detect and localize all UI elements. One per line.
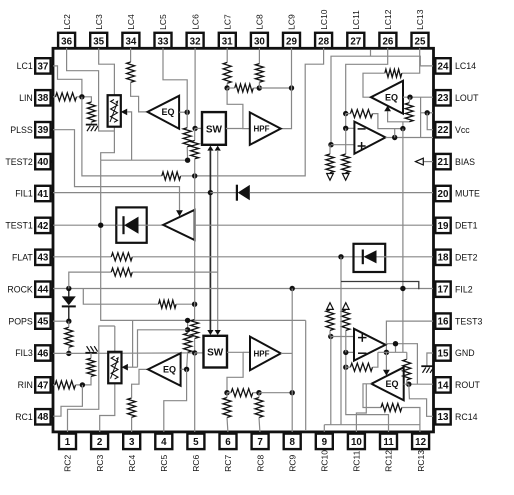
node n1 junction dot (79, 94, 84, 99)
node dotC (289, 85, 294, 90)
wire dot2 to SW1 (195, 127, 202, 129)
svg-text:RC3: RC3 (95, 455, 105, 472)
svg-text:5: 5 (193, 437, 199, 448)
SW control rail 1 (209, 150, 211, 331)
pin 9 RC10 (bottom) (316, 434, 333, 472)
wire RB to dotB (258, 82, 260, 88)
wire EQ3 out to dot (181, 368, 187, 370)
wire 402 rail upper stub (402, 122, 404, 129)
pin 45 POPS (left) (8, 313, 50, 328)
wire ROCK FIL2 row (53, 288, 433, 290)
BIAS arrow (416, 158, 434, 165)
pin stub left (51, 288, 54, 290)
resistor R-fb2 EQ2 feedback (385, 69, 402, 77)
wire pin25 LC13 lead (402, 48, 420, 73)
open arrow down R-dn1 (327, 173, 334, 181)
svg-text:HPF: HPF (254, 124, 270, 133)
long bias rail 402 (402, 129, 404, 353)
wire pin10 RC11 dogleg (356, 384, 366, 432)
resistor R-up1 (326, 310, 334, 331)
wire dot3b to R-up2 (345, 330, 347, 352)
svg-text:TEST2: TEST2 (5, 157, 32, 167)
pin 11 RC12 (bottom) (380, 434, 397, 472)
wire RA2 leads (226, 393, 229, 432)
svg-text:48: 48 (37, 412, 48, 423)
pin stub right (433, 65, 436, 67)
node ROCK dot (66, 286, 71, 291)
pin stub left (51, 192, 54, 194)
wire pin34 LC4 lead (130, 48, 132, 62)
VCA2 internal arrow (111, 357, 119, 379)
wire POPS row (53, 320, 69, 322)
pin 37 LC1 (left) (17, 58, 51, 73)
wire rail dot4 down to rock dot (194, 176, 196, 304)
pin stub right (433, 128, 436, 130)
svg-text:24: 24 (438, 61, 449, 72)
wire pin2 RC3 to VCA2 bottom (100, 383, 115, 432)
svg-text:LC8: LC8 (255, 14, 265, 30)
node op2 plus dot (328, 334, 333, 339)
svg-text:RC2: RC2 (63, 455, 73, 472)
svg-text:LC9: LC9 (287, 14, 297, 30)
pin stub right (433, 224, 436, 226)
wire HPF2 apex (281, 352, 292, 354)
VCA2 internal resistor (111, 356, 118, 379)
wire dot2op to plus input (331, 144, 354, 146)
wire R-g1 bottom (90, 122, 92, 125)
svg-text:29: 29 (286, 36, 297, 47)
node pin8 dot (290, 390, 295, 395)
node EQ4 out dot (406, 382, 411, 387)
svg-text:12: 12 (415, 437, 426, 448)
pin 33 LC5 (top) (155, 14, 172, 48)
EQ amp U7 (right channel output EQ) (371, 367, 403, 400)
VCA1 variable attenuator box (108, 95, 121, 127)
wire R-RIN to dot (76, 376, 92, 385)
pin stub right (433, 352, 436, 354)
pin 18 DET2 (right) (435, 250, 477, 265)
resistor R-POPS (65, 327, 73, 347)
wire R2m to FIL3 dot2 (194, 339, 196, 353)
VCA2 control arrowhead (122, 364, 128, 371)
svg-text:28: 28 (318, 36, 329, 47)
pin stub left (51, 160, 54, 162)
node dotfb1 (343, 111, 348, 116)
svg-text:LC2: LC2 (62, 14, 72, 30)
pin stub right (433, 416, 436, 418)
svg-text:32: 32 (190, 36, 201, 47)
pin 16 TEST3 (right) (435, 313, 482, 328)
pin 44 ROCK (left) (7, 282, 50, 297)
node dot1 (185, 110, 190, 115)
svg-text:LC12: LC12 (383, 9, 393, 30)
svg-text:DET2: DET2 (455, 253, 478, 263)
wire EQ4 apex line (363, 384, 381, 408)
wire Vcc node line (421, 112, 433, 114)
resistor R-LIN (56, 93, 77, 101)
wire R2 to dot4 (194, 159, 196, 176)
pin 12 RC13 (bottom) (412, 434, 429, 472)
svg-text:27: 27 (350, 36, 361, 47)
pin 34 LC4 (top) (122, 14, 139, 48)
pin stub left (51, 256, 54, 258)
svg-text:DET1: DET1 (455, 221, 478, 231)
pin 43 FLAT (left) (12, 250, 51, 265)
wire pin32 LC6 to dot2 (194, 48, 196, 128)
wire RA to dotA (226, 83, 228, 88)
pin stub right (433, 160, 436, 162)
wire box to buffer (147, 224, 164, 226)
node R1m top dot (185, 318, 190, 323)
wire R34 to EQ1 apex (131, 82, 148, 112)
wire LIN lead (53, 96, 56, 98)
wire R-n1 to dot4 (181, 175, 195, 177)
svg-text:LOUT: LOUT (455, 93, 479, 103)
wire op2 output (386, 344, 418, 385)
pin 20 MUTE (right) (435, 186, 480, 201)
svg-text:POPS: POPS (8, 316, 33, 326)
svg-text:RC5: RC5 (159, 455, 169, 472)
pin stub right (433, 192, 436, 194)
node rail-FIL2 junction dot (400, 286, 405, 291)
svg-text:31: 31 (222, 36, 233, 47)
open arrow up R-up2 (343, 303, 350, 310)
pin 27 LC11 (top) (347, 10, 364, 48)
svg-text:23: 23 (438, 93, 449, 104)
svg-text:BIAS: BIAS (455, 157, 475, 167)
svg-text:16: 16 (438, 317, 449, 328)
pin 14 ROUT (right) (435, 377, 480, 392)
pin stub left (51, 65, 54, 67)
svg-text:41: 41 (37, 189, 48, 200)
wire ROCK up branch (69, 272, 112, 288)
wire 352 line (378, 351, 407, 353)
svg-text:36: 36 (61, 36, 72, 47)
svg-text:35: 35 (93, 36, 104, 47)
diode D3 inside box (363, 250, 377, 265)
wire fbop2 leads (346, 352, 378, 367)
resistor RB2 (255, 398, 263, 418)
svg-text:LC10: LC10 (319, 9, 329, 30)
pin 35 LC3 (top) (90, 14, 107, 48)
svg-text:44: 44 (37, 285, 48, 296)
pin 32 LC6 (top) (187, 14, 204, 48)
pin 26 LC12 (top) (379, 9, 396, 48)
wire dot1b to minus (346, 352, 354, 367)
wire op2 apex stub (395, 344, 397, 353)
svg-text:1: 1 (65, 437, 71, 448)
svg-text:LC7: LC7 (222, 14, 232, 30)
wire EQ1 output to dot1 (179, 111, 187, 113)
svg-text:TEST1: TEST1 (5, 221, 32, 231)
resistor R2 (191, 141, 199, 159)
wire PLSS control (53, 130, 180, 211)
node dot2 (192, 126, 197, 131)
svg-text:6: 6 (225, 437, 231, 448)
pin stub left (51, 97, 54, 99)
pin 30 LC8 (top) (251, 14, 268, 48)
wire stub to bottom edge (305, 320, 307, 431)
svg-text:LC13: LC13 (415, 9, 425, 30)
ground G1 (86, 125, 98, 132)
wire op1 output (386, 97, 434, 137)
resistor RB (255, 64, 263, 83)
wire to pin13 RC14 (409, 384, 433, 416)
wire pin30 LC8 lead (258, 48, 260, 64)
wire fbop1 right to dotR (373, 114, 403, 129)
wire R1m column (187, 320, 188, 369)
svg-text:10: 10 (351, 437, 362, 448)
svg-text:14: 14 (438, 380, 449, 391)
pin 19 DET1 (right) (435, 218, 477, 233)
svg-text:RC4: RC4 (127, 455, 137, 472)
svg-text:MUTE: MUTE (455, 189, 480, 199)
buffer control arrowhead (176, 210, 183, 216)
svg-text:2: 2 (97, 437, 103, 448)
SW control rail 2 (217, 150, 219, 331)
node RIN dot (80, 382, 85, 387)
pin 3 RC4 (bottom) (123, 434, 140, 472)
node TEST3 dot (384, 350, 389, 355)
svg-text:LC4: LC4 (126, 14, 136, 30)
wire RC to dotA (227, 87, 235, 89)
resistor R-n1 (mute row) (162, 172, 181, 180)
wire DET2 dot rail down (340, 257, 342, 425)
svg-text:RC1: RC1 (15, 412, 33, 422)
wire VCA1 control from dot3 (127, 112, 131, 160)
node rail junction on TEST1 row (98, 223, 103, 228)
pin 8 RC9 (bottom) (284, 434, 301, 472)
svg-text:EQ: EQ (161, 107, 174, 117)
wire R-LIN to n1 and to ground resistor (77, 97, 92, 102)
wire dot4 to pin28 (195, 48, 324, 176)
svg-text:LC1: LC1 (17, 61, 33, 71)
wire FIL3 dot2 to pin5 (194, 353, 196, 432)
wire EQ4 out to ROUT (404, 383, 433, 385)
wire RIN lead (53, 384, 55, 386)
detector box D3 (354, 244, 386, 272)
pin 22 Vcc (right) (435, 122, 470, 137)
svg-text:TEST3: TEST3 (455, 316, 482, 326)
svg-text:11: 11 (383, 437, 394, 448)
wire dot1b to pin11 (346, 367, 389, 432)
wire SW2 out chain (227, 352, 243, 392)
pin 24 LC14 (right) (435, 58, 476, 73)
pin 42 TEST1 (left) (5, 218, 50, 233)
wire R-fb4 to pin12 (402, 408, 420, 433)
svg-text:SW: SW (207, 348, 224, 359)
resistor R-fbop1 (350, 110, 372, 118)
svg-text:33: 33 (158, 36, 169, 47)
wire plus dot to R-up1 (329, 330, 331, 336)
svg-text:9: 9 (322, 437, 328, 448)
svg-text:EQ: EQ (385, 379, 398, 389)
wire FIL3 dot2 to SW2 (195, 352, 204, 354)
wire dot4op stub (394, 129, 396, 138)
pin stub left (51, 352, 54, 354)
resistor R-dn1 (326, 154, 334, 173)
EQ2 control arrowhead (384, 106, 391, 112)
open arrow down R-dn2 (342, 173, 349, 181)
pin stub left (51, 128, 54, 130)
svg-text:34: 34 (125, 36, 136, 47)
op-amp U3 (354, 122, 385, 154)
resistor R-RIN (55, 381, 76, 389)
svg-text:LC14: LC14 (455, 61, 476, 71)
pin 46 FIL3 (left) (15, 345, 50, 360)
wire R-ROCK2 to dot (176, 303, 195, 305)
pin stub left (51, 384, 54, 386)
resistor R-FLAT (111, 253, 132, 261)
svg-text:LIN: LIN (19, 93, 33, 103)
pin 41 FIL1 (left) (15, 186, 50, 201)
pin stub right (433, 320, 436, 322)
pin 39 PLSS (left) (10, 122, 50, 137)
svg-text:3: 3 (129, 437, 135, 448)
resistor RC2m (231, 389, 253, 397)
HPF2 filter amp (250, 337, 281, 371)
SW1 control arrows (207, 146, 221, 151)
pin 47 RIN (left) (18, 377, 51, 392)
node dot4 junction (192, 173, 197, 178)
wire dot2 to R2 (194, 128, 196, 140)
svg-text:22: 22 (438, 125, 449, 136)
resistor R-out1 (405, 103, 413, 122)
node dotB (257, 85, 262, 90)
pin 36 LC2 (top) (58, 14, 75, 48)
node DET2 dot (338, 254, 343, 259)
svg-text:RC6: RC6 (191, 455, 201, 472)
svg-text:39: 39 (37, 125, 48, 136)
node dotR (400, 126, 405, 131)
node op2 out dot (393, 341, 398, 346)
wire dot2op to R-dn1 (329, 145, 331, 154)
wire R-POPS leads (68, 321, 70, 353)
node dot2op (328, 142, 333, 147)
wire R-out2 leads (407, 352, 409, 384)
ground G3 (421, 366, 433, 373)
wire dot1 to R1 (186, 112, 188, 128)
wire TEST3 row (386, 321, 433, 352)
pin stub right (433, 288, 436, 290)
wire ROCK 83 dogleg (83, 289, 158, 305)
pin stub left (51, 224, 54, 226)
resistor R2m (191, 320, 199, 339)
pin 48 RC1 (left) (15, 409, 50, 424)
svg-text:EQ: EQ (385, 92, 398, 102)
resistor RA2 (223, 398, 231, 418)
svg-text:SW: SW (206, 125, 223, 136)
svg-text:FLAT: FLAT (12, 253, 33, 263)
svg-text:RC8: RC8 (255, 455, 265, 472)
VCA2 variable attenuator box (108, 352, 121, 384)
pin 13 RC14 (right) (435, 409, 477, 424)
wire rock dot to R2m (194, 304, 196, 319)
svg-text:17: 17 (438, 285, 449, 296)
node dotB2 (256, 390, 261, 395)
op-amp U6 (354, 329, 386, 361)
wire pin9 stub (323, 425, 325, 432)
svg-text:RC7: RC7 (223, 455, 233, 472)
wire rail to VCA2 control (132, 320, 134, 367)
svg-text:13: 13 (438, 412, 449, 423)
node dotA2 (224, 390, 229, 395)
pin 17 FIL2 (right) (435, 282, 472, 297)
SW2 switch box (204, 336, 228, 368)
svg-text:RC14: RC14 (455, 412, 478, 422)
EQ amp U5 (right channel input EQ) (148, 353, 181, 386)
pin 25 LC13 (top) (412, 9, 429, 48)
wire dot3op to R-dn2 (345, 128, 347, 154)
svg-text:30: 30 (254, 36, 265, 47)
resistor RA (223, 62, 231, 83)
node FIL2 dot (290, 286, 295, 291)
pin 5 RC6 (bottom) (187, 434, 204, 472)
pin stub right (433, 384, 436, 386)
VCA1 internal resistor (111, 100, 118, 123)
svg-text:LC5: LC5 (158, 14, 168, 30)
wire pin4 RC5 dogleg (164, 369, 187, 432)
svg-text:FIL2: FIL2 (455, 284, 473, 294)
svg-text:FIL3: FIL3 (15, 348, 33, 358)
wire dotVcc to pin22 (427, 113, 433, 130)
node rock-rail dot (192, 302, 197, 307)
wire pin8 rail (291, 289, 293, 433)
svg-text:20: 20 (438, 189, 449, 200)
wire pin26 LC12 to feedback node (346, 48, 388, 114)
svg-text:26: 26 (382, 36, 393, 47)
wire R-ROCK-up to rail2 (132, 271, 217, 273)
pin 7 RC8 (bottom) (252, 434, 269, 472)
svg-text:RC10: RC10 (320, 450, 330, 472)
wire pin37 LC1 to node n1 (53, 66, 82, 97)
svg-text:19: 19 (438, 221, 449, 232)
resistor R-out2 (403, 359, 411, 380)
wire pin3 RC4 lead (131, 417, 133, 432)
node dot3b (343, 350, 348, 355)
svg-text:HPF: HPF (254, 349, 270, 358)
svg-text:4: 4 (161, 437, 167, 448)
node dot1b (343, 365, 348, 370)
svg-text:43: 43 (37, 253, 48, 264)
detector box D2 (116, 207, 146, 242)
pin 4 RC5 (bottom) (155, 434, 172, 472)
wire TEST1 row to box (53, 224, 116, 226)
pin 29 LC9 (top) (283, 14, 300, 48)
open arrow up R-up1 (327, 303, 334, 310)
wire RB2 leads (258, 393, 261, 432)
wire fbop1 left (346, 113, 351, 115)
diode D4 (rock) (62, 289, 76, 322)
IC body outline (53, 48, 434, 432)
resistor R-dn2 (342, 154, 350, 173)
pin stub right (433, 256, 436, 258)
svg-text:RC12: RC12 (384, 450, 394, 472)
svg-text:46: 46 (37, 348, 48, 359)
wire FIL3 row (53, 352, 195, 355)
node dotEQ2 (407, 95, 412, 100)
svg-text:47: 47 (37, 380, 48, 391)
svg-text:FIL1: FIL1 (15, 189, 33, 199)
wire op2 plus rail down (330, 337, 332, 425)
svg-text:42: 42 (37, 221, 48, 232)
wire left rail down to bottom (101, 160, 306, 320)
pin 2 RC3 (bottom) (91, 434, 108, 472)
pin 21 BIAS (right) (435, 154, 475, 169)
resistor R1m (184, 333, 192, 352)
wire dotB2 to pin8 rail (259, 392, 292, 394)
node POPS dot (66, 319, 71, 324)
